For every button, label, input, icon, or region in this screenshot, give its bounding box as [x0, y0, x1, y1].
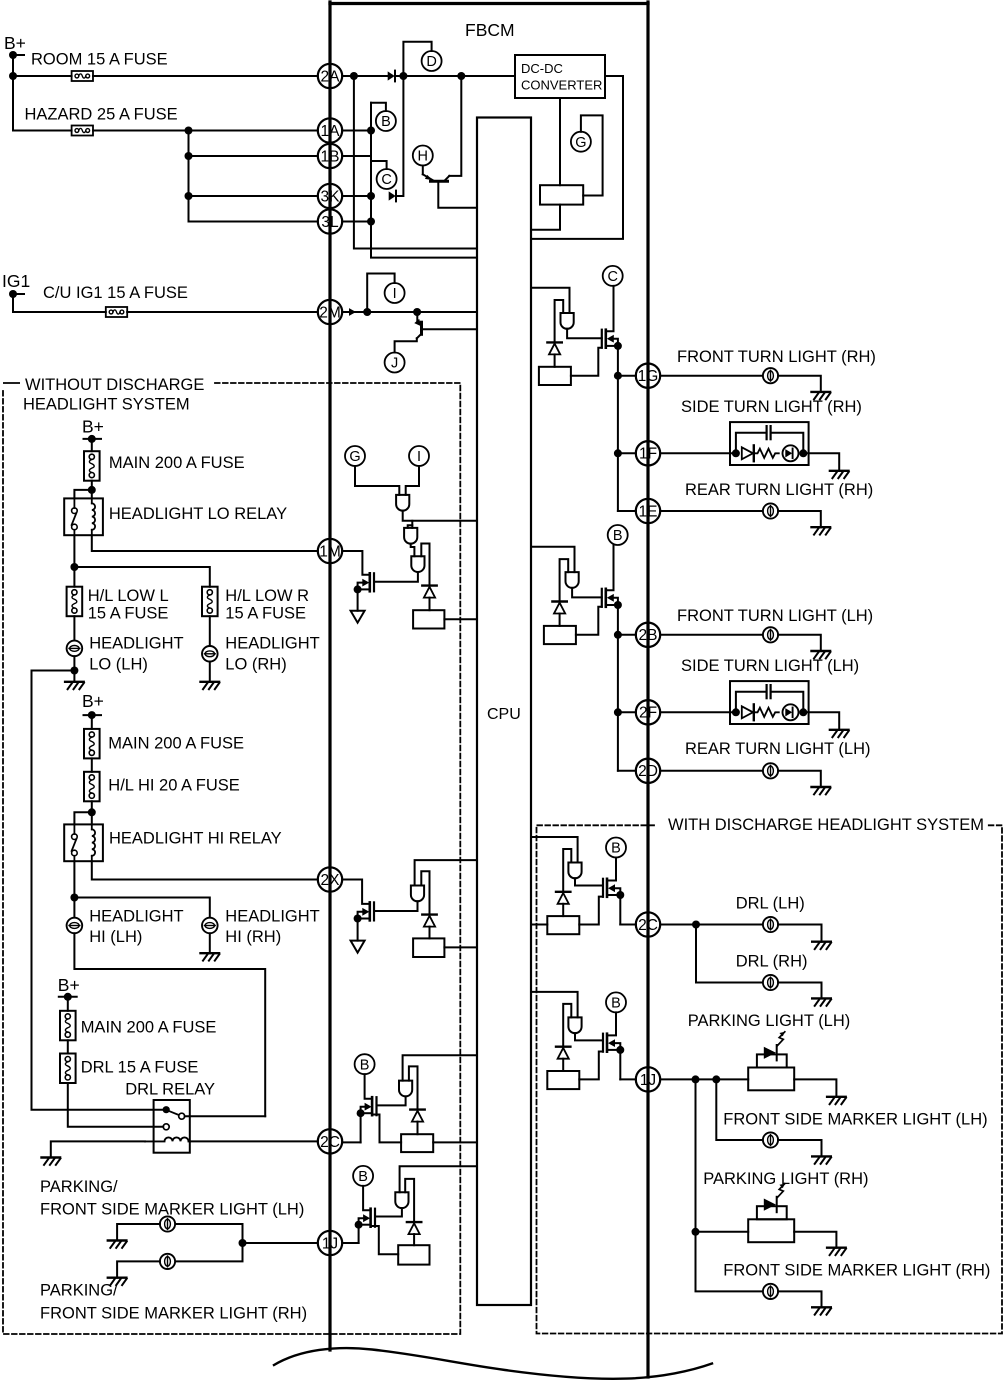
MOSFET Q4 (2X driver) — [373, 902, 375, 920]
junction — [367, 127, 375, 135]
junction — [399, 72, 407, 80]
test point G — [345, 446, 365, 466]
junction — [88, 486, 96, 494]
wire fuse to relay — [91, 481, 93, 499]
svg-text:HEADLIGHT HI RELAY: HEADLIGHT HI RELAY — [109, 830, 282, 848]
wire pin 2A into module — [342, 75, 388, 77]
svg-text:FRONT SIDE MARKER LIGHT (LH): FRONT SIDE MARKER LIGHT (LH) — [723, 1111, 987, 1129]
wire gate3 output to MOSFET gate — [374, 572, 418, 582]
junction — [354, 915, 362, 923]
zener diode ZD2 (2X driver) — [422, 913, 436, 915]
zener diode ZD3 (2C driver) — [410, 1108, 424, 1110]
svg-text:2F: 2F — [639, 705, 657, 722]
svg-text:B+: B+ — [82, 691, 104, 711]
junction — [614, 342, 622, 350]
ground (REAR TURN LIGHT (RH)) — [812, 526, 831, 528]
B+ terminal — [64, 993, 72, 1001]
test point I — [385, 283, 405, 303]
bulb HEADLIGHT LO (LH) — [67, 641, 83, 657]
wire pin 3K into module — [342, 195, 371, 197]
wire test point B to MOSFET drain — [365, 1074, 373, 1099]
junction — [616, 891, 624, 899]
wire pin 1A into module — [342, 130, 371, 132]
ground (SIDE TURN LIGHT (LH)) — [830, 729, 849, 731]
bulb parking/front side marker LH — [160, 1216, 175, 1231]
svg-text:FRONT SIDE MARKER LIGHT (LH): FRONT SIDE MARKER LIGHT (LH) — [40, 1201, 304, 1219]
wire room fuse to pin 2A — [93, 75, 318, 77]
wire MOSFET output to pin — [620, 1078, 636, 1080]
FBCM module enclosure left wall — [328, 2, 331, 1350]
wire gate output to MOSFET gate — [575, 878, 603, 885]
IG1 terminal — [9, 290, 17, 298]
wire to ground — [803, 453, 839, 471]
svg-text:D: D — [426, 54, 436, 70]
svg-text:15 A FUSE: 15 A FUSE — [88, 605, 169, 623]
wire gate output to MOSFET gate — [374, 901, 418, 911]
logic gate U1a (1M driver input) — [396, 495, 409, 511]
relay coil (DRL) — [145, 1137, 190, 1141]
wire diode to node — [395, 75, 461, 77]
MOSFET source lead — [606, 604, 618, 606]
hook to test point D — [403, 42, 431, 76]
MOSFET source lead — [607, 894, 620, 896]
svg-text:DRL (LH): DRL (LH) — [736, 895, 805, 913]
zener diode (driver protect) — [556, 1045, 570, 1047]
svg-text:FRONT SIDE MARKER LIGHT (RH): FRONT SIDE MARKER LIGHT (RH) — [40, 1305, 307, 1323]
bulb HEADLIGHT HI (RH) — [202, 918, 218, 934]
junction — [70, 667, 78, 675]
junction — [614, 708, 622, 716]
hook gate3 to zener — [421, 544, 429, 586]
wire Q2 base to CPU — [422, 328, 478, 330]
wire relay arm to headlight-high sense — [185, 1115, 266, 1117]
svg-text:DC-DC: DC-DC — [521, 61, 563, 76]
wire zener to sense block — [429, 927, 431, 939]
wire MOSFET output to pin 2C — [342, 1141, 360, 1143]
MOSFET Q5 body arrow — [365, 1103, 372, 1111]
wire output to pin 2F — [618, 711, 636, 713]
wire regulator block to CPU — [531, 205, 560, 230]
wire to pin 3L — [189, 221, 318, 223]
MOSFET source lead — [606, 345, 618, 347]
ground (headlight LO RH) — [201, 681, 220, 683]
hook to test point G — [581, 115, 603, 195]
logic gate U4 (1J gate driver) — [395, 1192, 408, 1208]
svg-text:1G: 1G — [638, 368, 659, 385]
wire pin to SIDE TURN LIGHT (LH) — [660, 711, 736, 713]
wire CPU to gate — [531, 288, 570, 313]
junction — [732, 708, 740, 716]
wire to main fuse — [91, 715, 93, 729]
wire fuse to LH low bulb — [73, 616, 75, 640]
ground (FRONT TURN LIGHT (LH)) — [812, 650, 831, 652]
svg-text:B+: B+ — [4, 33, 26, 53]
svg-text:HEADLIGHT: HEADLIGHT — [225, 907, 319, 925]
test point H — [413, 146, 433, 166]
MOSFET Q4 source lead — [358, 918, 370, 920]
zener diode (driver protect) — [552, 600, 566, 602]
svg-text:HI (LH): HI (LH) — [89, 928, 142, 946]
capacitor branch — [736, 433, 766, 454]
wire test point B to MOSFET drain — [363, 1186, 371, 1210]
svg-text:MAIN 200 A FUSE: MAIN 200 A FUSE — [109, 454, 245, 472]
hook gate to zener — [405, 1179, 414, 1222]
ground (parking RH) — [108, 1276, 127, 1278]
transistor Q1 (H) base lead — [422, 166, 424, 175]
wire gate output / CPU line — [403, 511, 477, 521]
internal bus 1A/1B/3K/3L down to CPU — [371, 103, 477, 258]
fuse C/U IG1 15 A FUSE — [106, 307, 127, 317]
wire node to DC-DC converter — [461, 75, 515, 77]
bulb DRL (RH) — [763, 975, 778, 990]
capacitor — [765, 685, 767, 698]
wire RH bulb to ground — [209, 933, 211, 953]
svg-text:REAR TURN LIGHT (LH): REAR TURN LIGHT (LH) — [685, 740, 871, 758]
svg-text:PARKING/: PARKING/ — [40, 1178, 118, 1196]
wire pin to SIDE TURN LIGHT (RH) — [660, 452, 736, 454]
MOSFET (output driver) — [601, 589, 603, 607]
connector pin 1J (FBCM) — [636, 1067, 660, 1091]
wire between fuses — [91, 758, 93, 771]
wire test point I to logic gate — [406, 466, 419, 495]
wire pin 2M into module — [342, 311, 477, 313]
wire MOSFET sense to block — [371, 1226, 399, 1254]
test point C — [603, 266, 623, 286]
svg-text:1J: 1J — [322, 1235, 338, 1252]
wire zener to sense block — [562, 904, 564, 916]
wire test point G to logic gate — [355, 466, 399, 495]
junction — [692, 1075, 700, 1083]
svg-text:B: B — [611, 841, 621, 857]
logic gate U2 (2X gate driver) — [411, 886, 424, 902]
bulb FRONT SIDE MARKER LIGHT (RH) — [763, 1284, 778, 1299]
svg-text:1E: 1E — [639, 503, 658, 520]
svg-text:HI (RH): HI (RH) — [225, 928, 281, 946]
connector pin 2M (FBCM) — [318, 300, 342, 324]
svg-text:1J: 1J — [640, 1072, 656, 1089]
svg-text:HEADLIGHT LO RELAY: HEADLIGHT LO RELAY — [109, 505, 287, 523]
wire sense block to MOSFET gate bottom — [576, 607, 602, 635]
junction — [88, 808, 96, 816]
junction hazard branch — [185, 127, 193, 135]
svg-text:DRL (RH): DRL (RH) — [736, 952, 808, 970]
wire zener to sense block — [559, 614, 561, 626]
svg-text:HEADLIGHT: HEADLIGHT — [89, 907, 183, 925]
wire CPU to 2X gate — [415, 860, 477, 885]
MOSFET body arrow — [607, 335, 614, 343]
fusible link MAIN 200 A FUSE (headlight low) — [84, 451, 100, 481]
wire LH bulb to DRL relay (high sense) — [74, 933, 265, 1116]
junction — [413, 308, 421, 316]
test point G — [571, 132, 591, 152]
wire to ground — [803, 712, 839, 730]
wire CPU to gate — [531, 837, 578, 863]
hook gate to zener — [563, 1004, 571, 1047]
wire CPU to gate — [531, 547, 575, 572]
junction — [692, 921, 700, 929]
connector pin 2F (FBCM) — [636, 700, 660, 724]
wire to pin 1B — [189, 155, 318, 157]
wire DC-DC bottom to regulator block — [559, 98, 561, 185]
svg-text:MAIN 200 A FUSE: MAIN 200 A FUSE — [81, 1019, 217, 1037]
wire sense block to CPU — [433, 1141, 477, 1143]
ground (parking RH) — [827, 1246, 846, 1248]
junction — [799, 449, 807, 457]
wire relay coil to pin 1M — [92, 535, 318, 551]
capacitor branch — [736, 692, 766, 713]
MOSFET Q6 body arrow — [363, 1214, 370, 1222]
LED diode — [742, 706, 753, 718]
junction — [357, 1109, 365, 1117]
svg-text:PARKING/: PARKING/ — [40, 1282, 118, 1300]
diode D1 (2A feed) — [388, 71, 395, 80]
ground (parking LH) — [827, 1096, 846, 1098]
wire pin to FRONT TURN LIGHT (RH) — [660, 375, 763, 377]
wire branch to RH bulb — [74, 898, 209, 918]
wire to DRL RH bulb — [696, 925, 763, 983]
wire to LH lamp — [175, 1224, 242, 1243]
wire between fuses — [67, 1040, 69, 1053]
LED lamp — [783, 445, 799, 461]
bulb REAR TURN LIGHT (LH) — [763, 763, 778, 778]
wire branch to right fuse — [74, 567, 209, 587]
junction — [614, 449, 622, 457]
fusible link MAIN 200 A FUSE (DRL) — [60, 1011, 76, 1041]
wire sense block to CPU — [444, 618, 477, 620]
MOSFET body arrow — [607, 594, 614, 602]
wire relay switch to low-beam fuses — [73, 535, 75, 587]
svg-text:2B: 2B — [639, 627, 658, 644]
svg-text:J: J — [391, 356, 398, 372]
LED side marker assembly SIDE TURN LIGHT (RH) — [730, 422, 809, 465]
ground (DRL relay coil) — [42, 1156, 61, 1158]
wire relay switch to high-beam bulbs — [73, 861, 75, 918]
svg-text:3K: 3K — [321, 188, 341, 205]
wire sense block to MOSFET gate bottom — [579, 1052, 603, 1080]
wire CPU to gate — [531, 992, 578, 1018]
junction — [367, 218, 375, 226]
connector pin 3K (FBCM) — [318, 184, 342, 208]
svg-text:C: C — [607, 269, 617, 285]
svg-text:HAZARD 25 A FUSE: HAZARD 25 A FUSE — [25, 106, 178, 124]
svg-text:B+: B+ — [82, 417, 104, 437]
wire into second gate — [411, 521, 413, 528]
wire B+ to hazard fuse — [13, 130, 72, 132]
svg-text:MAIN 200 A FUSE: MAIN 200 A FUSE — [108, 734, 244, 752]
connector pin 2A (FBCM) — [318, 64, 342, 88]
wire zener to sense block — [417, 1122, 419, 1135]
wire gate output to MOSFET gate — [567, 329, 602, 339]
wire lamp to ground — [117, 1261, 160, 1277]
svg-text:REAR TURN LIGHT (RH): REAR TURN LIGHT (RH) — [685, 481, 873, 499]
hook gate to zener — [421, 871, 429, 914]
wire bulb to ground — [778, 983, 821, 999]
bulb DRL (LH) — [763, 917, 778, 932]
wire bulb to ground — [209, 662, 211, 682]
regulator block (G monitor) — [540, 185, 583, 204]
wire coil to ground — [51, 1141, 145, 1157]
svg-text:G: G — [349, 449, 360, 465]
wire zener to sense block — [413, 1234, 415, 1245]
junction — [70, 563, 78, 571]
junction — [457, 72, 465, 80]
transistor Q2 (J) emitter lead — [416, 312, 418, 322]
svg-text:I: I — [393, 286, 397, 302]
MOSFET Q4 body arrow — [362, 908, 369, 916]
wire MOSFET drain to test point B — [607, 1012, 616, 1035]
hook to test point B — [371, 103, 386, 111]
wire B+ to room fuse — [13, 75, 72, 77]
wire bulb to ground — [778, 635, 821, 651]
svg-text:15 A FUSE: 15 A FUSE — [225, 605, 306, 623]
wire assembly to ground — [794, 1079, 836, 1096]
junction — [799, 708, 807, 716]
fusible link H/L HI 20 A FUSE — [84, 772, 100, 802]
DC-DC CONVERTER block — [515, 55, 605, 98]
wire pin 1J to parking lamps — [660, 1078, 748, 1080]
wire DC-DC output right to CPU — [531, 76, 623, 239]
svg-text:FRONT SIDE MARKER LIGHT (RH): FRONT SIDE MARKER LIGHT (RH) — [723, 1262, 990, 1280]
resistor — [754, 708, 779, 717]
svg-text:CPU: CPU — [487, 706, 521, 723]
junction — [732, 449, 740, 457]
wire fuse to pin 2M — [127, 311, 318, 313]
hook gate to zener — [409, 1066, 418, 1109]
svg-text:C/U IG1 15 A FUSE: C/U IG1 15 A FUSE — [43, 284, 188, 302]
svg-text:LO (LH): LO (LH) — [89, 655, 148, 673]
svg-text:B: B — [613, 528, 623, 544]
svg-text:H: H — [418, 149, 428, 165]
test point J — [385, 353, 405, 373]
zener diode (driver protect) — [547, 341, 561, 343]
FBCM module enclosure right wall — [646, 2, 649, 1377]
ground (headlight LO LH) — [65, 681, 84, 683]
svg-text:PARKING LIGHT (RH): PARKING LIGHT (RH) — [703, 1170, 868, 1188]
sense block — [539, 367, 571, 385]
wire zener to sense block — [554, 354, 556, 366]
bulb HEADLIGHT LO (RH) — [202, 646, 218, 662]
MOSFET Q6 (1J driver) — [374, 1209, 376, 1227]
connector pin 1E (FBCM) — [636, 499, 660, 523]
wire gate output to MOSFET gate — [575, 1033, 603, 1040]
wire to pin 3K — [189, 195, 318, 197]
wire sense block to MOSFET gate bottom — [571, 348, 602, 376]
wire pin to REAR TURN LIGHT (LH) — [660, 770, 763, 772]
svg-text:2C: 2C — [320, 1134, 340, 1151]
bulb HEADLIGHT HI (LH) — [67, 918, 83, 934]
junction — [367, 192, 375, 200]
logic gate U1b — [404, 528, 417, 544]
wire bulb to ground — [778, 771, 821, 787]
test point C — [377, 169, 397, 189]
wire Q2 collector to test point J — [395, 338, 417, 352]
wire MOSFET drain to test point B — [607, 858, 616, 881]
sense block (2X driver) — [413, 938, 444, 957]
wire gate2 to gate3 — [411, 544, 415, 557]
wire CPU to 1J gate — [400, 1166, 477, 1192]
wire sense block to CPU — [444, 946, 477, 948]
LED lamp — [783, 704, 799, 720]
wire gate output to MOSFET gate — [377, 1096, 406, 1105]
svg-text:FBCM: FBCM — [465, 20, 515, 40]
resistor — [754, 449, 779, 458]
relay HEADLIGHT HI RELAY — [64, 824, 103, 861]
ground (SIDE TURN LIGHT (RH)) — [830, 470, 849, 472]
sense block (2C driver) — [401, 1134, 433, 1152]
sense block — [544, 626, 576, 644]
test point B — [606, 992, 626, 1012]
MOSFET Q3 source lead — [358, 588, 370, 590]
test point B — [355, 1054, 375, 1074]
MOSFET body arrow — [608, 1039, 615, 1047]
wire bulb to ground — [778, 1140, 821, 1156]
junction — [350, 72, 358, 80]
CPU block — [477, 118, 531, 1306]
fuse HAZARD 25 A FUSE — [72, 126, 93, 136]
wire MOSFET sense to block — [372, 1115, 401, 1143]
wire sense block to MOSFET gate bottom — [579, 897, 603, 925]
svg-text:1B: 1B — [321, 148, 340, 165]
wire bulb to ground — [778, 376, 821, 392]
LED side marker assembly SIDE TURN LIGHT (LH) — [730, 681, 809, 724]
MOSFET (output driver) — [602, 879, 604, 897]
connector pin 1J (FBCM) — [318, 1231, 342, 1255]
wire branch to relay switch — [74, 490, 91, 499]
svg-text:WITH DISCHARGE HEADLIGHT SYSTE: WITH DISCHARGE HEADLIGHT SYSTEM — [668, 816, 984, 834]
hook gate to zener — [563, 849, 571, 892]
wire 2A branch down to CPU — [354, 76, 477, 249]
svg-text:B: B — [611, 996, 621, 1012]
logic gate U1c (gate driver) — [411, 556, 424, 572]
svg-text:1A: 1A — [321, 123, 341, 140]
junction — [363, 308, 371, 316]
ground (parking LH) — [108, 1239, 127, 1241]
fuse ROOM 15 A FUSE — [72, 71, 93, 81]
transistor Q1 (H) — [423, 174, 433, 180]
wire output to pin 1F — [618, 452, 636, 454]
wire pin 1B into module — [342, 155, 371, 157]
wire lamp to ground — [117, 1224, 160, 1241]
connector pin 1F (FBCM) — [636, 441, 660, 465]
wire 3K diode to 2A node — [396, 76, 403, 196]
svg-text:H/L HI 20 A FUSE: H/L HI 20 A FUSE — [108, 777, 239, 795]
wire to main fuse — [91, 439, 93, 451]
svg-text:B: B — [381, 114, 391, 130]
connector pin 1G (FBCM) — [636, 364, 660, 388]
svg-text:IG1: IG1 — [2, 271, 30, 291]
test point D — [422, 51, 442, 71]
svg-text:SIDE TURN LIGHT (LH): SIDE TURN LIGHT (LH) — [681, 657, 859, 675]
connector pin 2X (FBCM) — [318, 867, 342, 891]
B+ terminal — [88, 435, 96, 443]
diode D2 (3K feed) — [389, 191, 396, 200]
fusible link H/L LOW R 15 A FUSE — [202, 587, 218, 617]
fusible link H/L LOW L 15 A FUSE — [67, 587, 83, 617]
test point B — [606, 838, 626, 858]
ground (headlight HI RH) — [201, 952, 220, 954]
wire branch to relay switch — [74, 812, 91, 824]
wire pin 1M to MOSFET — [342, 551, 370, 575]
svg-text:C: C — [381, 172, 391, 188]
svg-text:WITHOUT DISCHARGE: WITHOUT DISCHARGE — [25, 376, 204, 394]
wire driver output to rows 1F/1E — [617, 376, 619, 511]
wire to RH lamp — [175, 1243, 242, 1261]
MOSFET Q5 (2C driver) — [375, 1097, 377, 1115]
connector pin 2C (FBCM) — [636, 912, 660, 936]
wire output to pin 2B — [618, 634, 636, 636]
zener diode ZD1 (1M driver) — [422, 584, 436, 586]
junction — [354, 585, 362, 593]
